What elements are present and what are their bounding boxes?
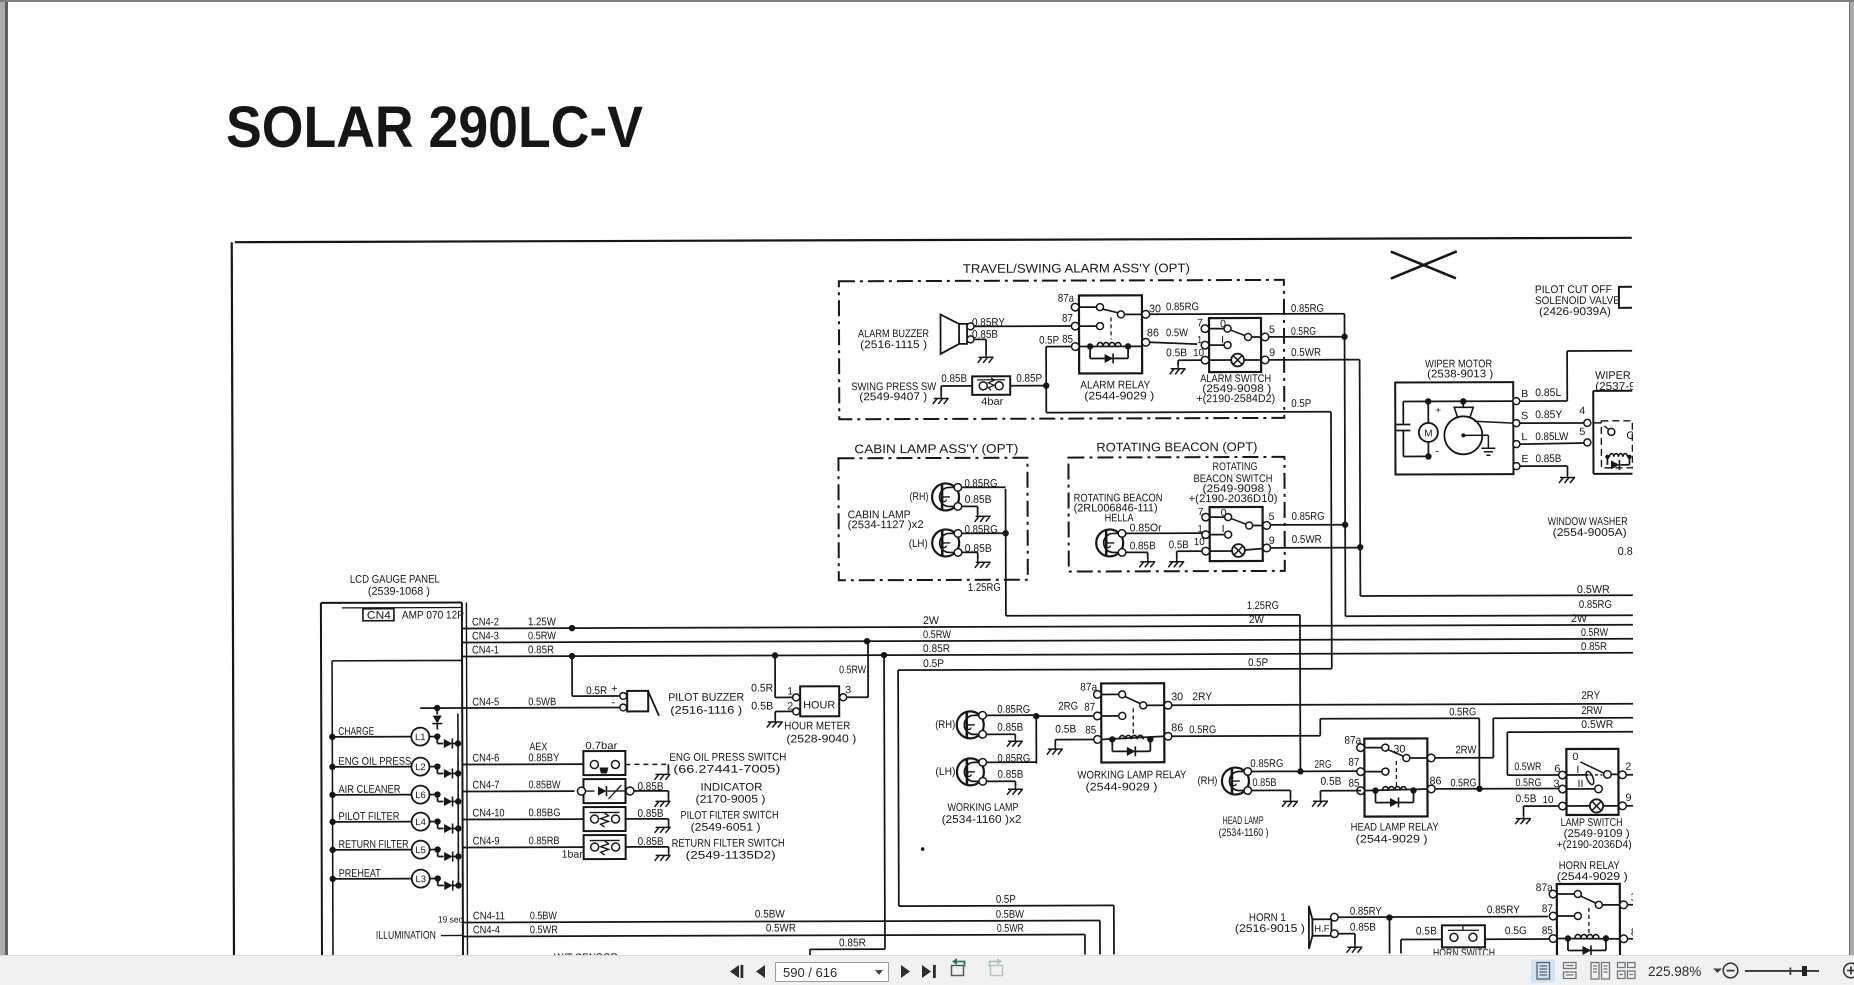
svg-text:ENG OIL PRESS: ENG OIL PRESS [338, 756, 411, 768]
working lamp relay pin labels [1080, 681, 1183, 736]
svg-text:2RG: 2RG [1314, 759, 1331, 771]
horn switch [1442, 925, 1485, 947]
svg-text:85: 85 [1085, 724, 1096, 736]
wire CN4-4 0.5WR [463, 922, 1085, 957]
wiper timer internals [1593, 421, 1635, 470]
svg-text:(LH): (LH) [909, 538, 928, 550]
svg-text:30: 30 [1631, 892, 1641, 904]
rotating beacon switch pin labels [1194, 506, 1275, 548]
svg-text:AMP 070 12P: AMP 070 12P [402, 609, 464, 621]
wire 0.5WR alarm switch 9 [1269, 346, 1633, 597]
svg-text:ROTATING: ROTATING [1212, 461, 1257, 473]
first page button [730, 965, 743, 978]
svg-text:ROTATING BEACON (OPT): ROTATING BEACON (OPT) [1096, 440, 1257, 455]
svg-text:0.5P: 0.5P [1039, 335, 1059, 347]
svg-text:9: 9 [1625, 792, 1631, 804]
rotating beacon switch [1202, 507, 1271, 561]
svg-text:0.85RG: 0.85RG [1579, 599, 1612, 611]
svg-text:0.85RY: 0.85RY [972, 317, 1006, 329]
svg-text:0.5WB: 0.5WB [528, 696, 556, 708]
svg-text:(2549-6051 ): (2549-6051 ) [691, 822, 761, 834]
svg-text:0.85LW: 0.85LW [1535, 431, 1569, 443]
svg-text:9: 9 [1269, 535, 1275, 547]
svg-text:0.85RG: 0.85RG [1166, 301, 1199, 313]
svg-text:CN4-4: CN4-4 [473, 924, 500, 936]
svg-text:ILLUMINATION: ILLUMINATION [376, 930, 436, 942]
svg-text:CN4-10: CN4-10 [473, 807, 505, 819]
working lamp LH [935, 758, 986, 785]
svg-text:(2538-9013 ): (2538-9013 ) [1427, 368, 1493, 380]
svg-text:0.85RG: 0.85RG [1291, 303, 1324, 315]
svg-text:2RW: 2RW [1455, 744, 1477, 756]
TRAVEL/SWING ALARM ASSY title [963, 261, 1190, 276]
wire 0.85B working RH [986, 722, 1023, 747]
svg-text:L1: L1 [415, 732, 426, 743]
head lamp relay pin labels [1344, 734, 1441, 789]
panel inner partition [332, 660, 463, 956]
svg-text:9: 9 [1269, 347, 1275, 359]
wire 0.85B horn ground [1338, 922, 1376, 953]
svg-text:0.5B: 0.5B [1416, 925, 1437, 937]
svg-text:7: 7 [1197, 317, 1203, 329]
svg-text:0.5B: 0.5B [1166, 347, 1187, 359]
svg-text:0.85B: 0.85B [941, 373, 967, 385]
svg-text:RETURN FILTER: RETURN FILTER [339, 839, 409, 851]
WORKING LAMP RELAY label [1077, 769, 1187, 793]
svg-text:E: E [1521, 453, 1528, 465]
svg-text:2RY: 2RY [1581, 690, 1601, 702]
wire 0.5RG head relay 86 [1435, 777, 1559, 789]
svg-text:0.5B: 0.5B [1515, 793, 1536, 805]
svg-text:PREHEAT: PREHEAT [339, 868, 381, 880]
ALARM RELAY label [1080, 379, 1154, 402]
indicator lamp L6 (AIR CLEANER) [329, 783, 461, 806]
wire CN4-6 0.85BY [462, 741, 583, 764]
svg-text:0.5G: 0.5G [1505, 925, 1527, 937]
svg-text:CN4-9: CN4-9 [473, 835, 500, 847]
svg-text:0.85BW: 0.85BW [528, 779, 561, 791]
svg-text:1bar: 1bar [562, 849, 584, 861]
svg-text:0.5RG: 0.5RG [1291, 326, 1316, 338]
wire 0.85P swing press [1010, 373, 1046, 386]
svg-text:19 sec: 19 sec [438, 914, 463, 924]
svg-text:CN4-5: CN4-5 [472, 696, 499, 708]
svg-text:(RH): (RH) [1197, 775, 1217, 787]
svg-text:0.5P: 0.5P [1248, 657, 1268, 669]
wire 2RY [1171, 690, 1633, 705]
svg-text:0.5RG: 0.5RG [1189, 724, 1216, 736]
svg-text:86: 86 [1429, 775, 1441, 787]
svg-text:I: I [1222, 523, 1225, 535]
HORN RELAY label [1557, 860, 1628, 883]
svg-text:+: + [611, 683, 617, 695]
working lamp RH [935, 711, 986, 738]
svg-text:5: 5 [1269, 324, 1275, 336]
indicator lamp L4 (PILOT FILTER) [329, 810, 461, 833]
svg-text:0.5P: 0.5P [923, 658, 944, 670]
wire 0.5RW hour meter pin3 [839, 641, 868, 697]
HEAD LAMP label [1219, 815, 1269, 839]
svg-text:0.85BY: 0.85BY [528, 752, 560, 764]
svg-text:(RH): (RH) [910, 491, 929, 503]
wiper motor [1395, 382, 1513, 474]
svg-text:H.F: H.F [1314, 924, 1329, 935]
wire 0.5G horn [1485, 925, 1551, 939]
svg-text:II: II [1577, 778, 1583, 790]
svg-text:HEAD LAMP: HEAD LAMP [1223, 815, 1264, 827]
svg-text:+(2190-2584D2): +(2190-2584D2) [1196, 393, 1275, 405]
svg-text:0.85RG: 0.85RG [1292, 511, 1325, 523]
svg-text:10: 10 [1194, 536, 1205, 548]
svg-text:3: 3 [845, 684, 851, 696]
svg-text:(66.27441-7005): (66.27441-7005) [673, 763, 780, 775]
ILLUMINATION label [376, 929, 463, 941]
svg-text:0.5RW: 0.5RW [1581, 627, 1609, 639]
wire 0.85B wiper E [1520, 453, 1575, 483]
svg-text:0.5WR: 0.5WR [1291, 347, 1321, 359]
svg-text:AIR CLEANER: AIR CLEANER [338, 784, 400, 796]
LCD gauge panel label [350, 574, 440, 598]
svg-text:CHARGE: CHARGE [338, 726, 374, 738]
wire lamp switch pin9 [1626, 805, 1633, 807]
SWING PRESS SW label [851, 381, 937, 403]
svg-text:L4: L4 [415, 817, 426, 828]
svg-text:4bar: 4bar [981, 396, 1004, 408]
svg-text:0.85B: 0.85B [1252, 777, 1276, 789]
WIPER TIMER label [1595, 370, 1643, 393]
wire 0.85L wiper B [1520, 351, 1633, 401]
svg-text:(2516-1115 ): (2516-1115 ) [860, 339, 927, 351]
svg-text:I: I [1576, 764, 1579, 776]
svg-text:0.5WR: 0.5WR [766, 922, 796, 934]
svg-text:0.85B: 0.85B [997, 769, 1023, 781]
svg-text:86: 86 [1631, 927, 1643, 939]
svg-text:10: 10 [1193, 347, 1204, 359]
alarm relay [1071, 295, 1149, 373]
svg-text:6: 6 [1554, 763, 1560, 775]
svg-text:2RW: 2RW [1581, 705, 1603, 717]
svg-text:0.5WR: 0.5WR [1577, 584, 1610, 596]
svg-text:RETURN FILTER SWITCH: RETURN FILTER SWITCH [672, 837, 785, 849]
svg-text:5: 5 [1269, 511, 1275, 523]
svg-text:CN4: CN4 [367, 610, 391, 622]
svg-text:PILOT FILTER: PILOT FILTER [339, 811, 400, 823]
indicator (2170-9005) [577, 779, 670, 807]
svg-text:0: 0 [1220, 318, 1226, 330]
wire 0.85RG head lamp [1250, 758, 1331, 775]
svg-text:(2549-9407 ): (2549-9407 ) [859, 391, 927, 403]
cabin lamp RH [910, 483, 962, 510]
svg-text:0.5WR: 0.5WR [1514, 761, 1541, 773]
svg-text:87: 87 [1084, 701, 1095, 713]
svg-text:87: 87 [1348, 757, 1359, 769]
indicator lamp L3 (PREHEAT) [330, 867, 462, 890]
svg-text:M: M [1424, 428, 1432, 439]
svg-text:HORN SWITCH: HORN SWITCH [1433, 947, 1495, 955]
svg-text:87a: 87a [1080, 681, 1098, 693]
svg-text:CN4-3: CN4-3 [472, 630, 499, 642]
svg-text:85: 85 [1062, 334, 1073, 346]
svg-text:(2549-1135D2): (2549-1135D2) [686, 849, 776, 861]
svg-text:(2426-9039A): (2426-9039A) [1539, 306, 1611, 318]
svg-text:HOUR: HOUR [803, 699, 835, 711]
ENG OIL PRESS SWITCH label [669, 751, 786, 775]
wire 0.5W relay86-switch1 [1150, 327, 1198, 344]
svg-text:L3: L3 [415, 874, 426, 885]
svg-text:(2539-1068 ): (2539-1068 ) [368, 586, 430, 598]
svg-text:CN4-2: CN4-2 [472, 616, 499, 628]
svg-text:0.85B: 0.85B [965, 543, 992, 555]
wire 85 to 0.5P [1046, 346, 1071, 348]
svg-text:CN4-7: CN4-7 [472, 779, 499, 791]
wire 0.85B head lamp [1252, 777, 1298, 807]
wire 0.85RG cabin LH [962, 524, 1009, 537]
svg-text:CN4-6: CN4-6 [472, 752, 499, 764]
alarm buzzer [940, 314, 974, 354]
wire 0.5RG alarm switch 5 [1269, 326, 1345, 338]
svg-text:SOLAR 290LC-V: SOLAR 290LC-V [226, 95, 643, 160]
svg-text:+: + [1435, 405, 1441, 416]
svg-text:(RH): (RH) [935, 719, 955, 731]
ENG OIL PRESS switch [583, 740, 670, 780]
PILOT CUT OFF SOLENOID VALVE label [1535, 284, 1620, 318]
LCD gauge panel box [321, 602, 468, 956]
svg-text:0.5BW: 0.5BW [755, 908, 786, 920]
wire CN4-7 0.85BW [462, 779, 574, 791]
wire 0.85B beacon ground [1126, 540, 1156, 567]
svg-text:(2544-9029 ): (2544-9029 ) [1356, 833, 1428, 845]
svg-text:0.5B: 0.5B [1055, 724, 1076, 736]
svg-text:CN4-11: CN4-11 [473, 910, 505, 922]
schematic sheet border (top edge) [235, 238, 1632, 242]
svg-text:0.85R: 0.85R [839, 937, 866, 949]
wire 0.85B swing press [933, 373, 973, 404]
svg-text:ENG OIL PRESS SWITCH: ENG OIL PRESS SWITCH [669, 751, 786, 763]
svg-text:C: C [1626, 430, 1634, 442]
indicator lamp L2 (ENG OIL PRESS) [329, 755, 461, 778]
svg-text:(2534-1160 )x2: (2534-1160 )x2 [942, 814, 1022, 826]
wire 0.85RG vertical [1341, 313, 1633, 616]
wire 0.85B cabin RH [962, 494, 992, 522]
WIPER MOTOR label [1425, 358, 1493, 380]
CN4-5 internal wire [420, 705, 462, 712]
svg-text:0.5R: 0.5R [751, 682, 773, 694]
svg-text:0.85R: 0.85R [1581, 641, 1607, 653]
svg-text:PILOT BUZZER: PILOT BUZZER [668, 692, 744, 704]
head lamp relay [1357, 738, 1435, 816]
alarm switch pin labels [1193, 317, 1275, 359]
alarm switch [1201, 318, 1269, 372]
svg-text:0.85BG: 0.85BG [529, 807, 561, 819]
svg-text:1.25W: 1.25W [528, 616, 557, 628]
svg-text:TRAVEL/SWING ALARM ASS'Y (OPT): TRAVEL/SWING ALARM ASS'Y (OPT) [963, 261, 1190, 276]
svg-text:HEAD LAMP RELAY: HEAD LAMP RELAY [1351, 821, 1440, 833]
wire 2RG working junction [1033, 700, 1094, 763]
last page button [922, 965, 936, 978]
svg-text:0.85Y: 0.85Y [1535, 409, 1563, 421]
rotating beacon box [1068, 457, 1284, 572]
svg-text:0.5P: 0.5P [996, 894, 1016, 906]
zoom dropdown caret [1713, 969, 1722, 974]
svg-text:I: I [1221, 334, 1224, 346]
svg-text:L2: L2 [415, 762, 426, 773]
wire 0.85RY buzzer-relay [972, 317, 1072, 329]
wire 0.5RG working relay 86 [1171, 706, 1482, 793]
svg-text:(2528-9040 ): (2528-9040 ) [786, 733, 856, 745]
wire horn relay 30 [1627, 904, 1634, 906]
svg-text:(2534-1160 ): (2534-1160 ) [1219, 827, 1269, 839]
svg-text:(2544-9029 ): (2544-9029 ) [1557, 871, 1628, 883]
svg-text:(LH): (LH) [935, 766, 955, 778]
svg-text:0.5P: 0.5P [1291, 398, 1311, 410]
svg-text:WORKING LAMP: WORKING LAMP [948, 802, 1019, 814]
wire 0.85RY horn [1338, 904, 1548, 954]
svg-text:LCD GAUGE PANEL: LCD GAUGE PANEL [350, 574, 440, 586]
svg-text:0.85B: 0.85B [965, 494, 992, 506]
W/T SENSOR label [554, 952, 618, 964]
HORN 1 label [1235, 912, 1305, 935]
X mark [1391, 251, 1457, 278]
svg-text:PILOT FILTER SWITCH: PILOT FILTER SWITCH [681, 809, 779, 821]
head lamp RH [1197, 767, 1251, 794]
wire 0.5B horn switch [1401, 925, 1442, 953]
wire 0.5B lamp switch ground [1515, 793, 1559, 824]
svg-text:0.5W: 0.5W [1166, 327, 1189, 339]
travel/swing alarm assy box [839, 280, 1284, 419]
svg-text:0.5BW: 0.5BW [530, 910, 558, 922]
INDICATOR label [695, 782, 765, 806]
prev page button [756, 965, 765, 978]
svg-text:0.85RG: 0.85RG [997, 704, 1030, 716]
HEAD LAMP RELAY label [1351, 821, 1440, 845]
svg-text:INDICATOR: INDICATOR [700, 782, 762, 794]
svg-text:0.5RW: 0.5RW [839, 664, 867, 676]
19 sec label [438, 914, 463, 924]
svg-text:0.5WR: 0.5WR [1292, 534, 1322, 546]
wire CN4-5 0.5WB [462, 696, 619, 708]
svg-text:HOUR METER: HOUR METER [784, 720, 850, 732]
svg-text:0.85B: 0.85B [997, 722, 1023, 734]
single page layout icon (active) [1531, 960, 1555, 983]
horn speaker [1309, 906, 1338, 949]
svg-text:86: 86 [1171, 722, 1183, 734]
svg-text:0.5BW: 0.5BW [996, 909, 1025, 921]
svg-text:0.5R: 0.5R [586, 685, 607, 697]
svg-text:1: 1 [1198, 523, 1203, 535]
svg-text:0.5RW: 0.5RW [923, 629, 952, 641]
wire 0.85B buzzer ground [972, 329, 998, 363]
wire 0.85R to W/T sensor [809, 655, 885, 955]
svg-text:0.85RB: 0.85RB [529, 835, 560, 847]
svg-text:0.85R: 0.85R [528, 644, 554, 656]
wire 0.5P net [897, 334, 1333, 955]
wire horn relay 86 [1627, 938, 1634, 940]
svg-text:0: 0 [1221, 507, 1227, 519]
svg-text:1.25RG: 1.25RG [968, 582, 1001, 594]
svg-text:(2516-9015 ): (2516-9015 ) [1235, 923, 1305, 935]
CABIN LAMP ASSY title [854, 442, 1018, 457]
svg-text:(2534-1127 )x2: (2534-1127 )x2 [848, 519, 924, 531]
lamp switch pin labels [1542, 751, 1631, 806]
svg-text:0.8: 0.8 [1618, 546, 1633, 558]
wire CN4-2 / 2W bus [462, 613, 1633, 632]
svg-text:0.5RG: 0.5RG [1449, 706, 1476, 718]
indicator lamp L1 (CHARGE) [329, 725, 461, 748]
lamp diode bus [457, 713, 460, 886]
wire CN4-10 0.85BG [463, 807, 584, 819]
svg-text:0.5RG: 0.5RG [1450, 777, 1476, 789]
svg-text:10: 10 [1542, 794, 1553, 806]
wire 2RG to head relay [1300, 770, 1357, 772]
working lamp relay [1094, 683, 1172, 762]
svg-text:0.85B: 0.85B [1130, 540, 1156, 552]
svg-text:1: 1 [1197, 334, 1202, 346]
wire 0.85B working LH [987, 769, 1024, 795]
wire 0.5WR beacon 9 [1270, 534, 1360, 548]
cut wire label 0.8 [1618, 546, 1633, 558]
svg-text:0.85RG: 0.85RG [965, 524, 998, 536]
diode to CN4-5 line [432, 708, 442, 730]
svg-text:0.85B: 0.85B [1535, 453, 1561, 465]
svg-text:86: 86 [1147, 327, 1159, 339]
wire 0.5B working relay ground [1047, 723, 1094, 754]
wire 0.85RG alarm relay 30 [1149, 301, 1344, 316]
rotating beacon lamp [1096, 529, 1126, 556]
svg-text:(2516-1116 ): (2516-1116 ) [670, 705, 742, 717]
wire 0.85Y wiper S [1520, 405, 1591, 427]
svg-text:L6: L6 [415, 790, 426, 801]
svg-text:0.5RG: 0.5RG [1515, 777, 1541, 789]
cabin lamp assy box [838, 458, 1027, 581]
wire 0.85RG working RH [986, 704, 1036, 716]
wire 2RW [1435, 705, 1634, 758]
svg-text:87: 87 [1542, 903, 1553, 915]
svg-text:0.85RG: 0.85RG [997, 753, 1030, 765]
swing press switch [972, 376, 1010, 408]
svg-text:+(2190-2036D4): +(2190-2036D4) [1557, 839, 1632, 851]
pilot buzzer [611, 691, 659, 716]
PILOT BUZZER label [668, 692, 744, 717]
svg-text:0.85RG: 0.85RG [1250, 758, 1283, 770]
PILOT FILTER switch [584, 807, 671, 833]
svg-text:0.5RW: 0.5RW [528, 630, 557, 642]
horn relay [1549, 884, 1627, 960]
LAMP SWITCH label [1557, 817, 1632, 851]
pilot cut off solenoid connector [1619, 287, 1632, 308]
svg-text:0.85R: 0.85R [923, 643, 950, 655]
cabin lamp LH [909, 529, 962, 556]
wire 0.85RG working LH [986, 753, 1036, 765]
WINDOW WASHER label [1548, 516, 1628, 539]
svg-text:0.5WR: 0.5WR [530, 924, 558, 936]
svg-text:87a: 87a [1344, 735, 1362, 747]
svg-text:30: 30 [1171, 691, 1183, 703]
facing continuous layout icon [1618, 963, 1636, 979]
zoom out button [1723, 963, 1738, 978]
PILOT FILTER SWITCH label [681, 809, 779, 833]
svg-text:L: L [1521, 431, 1527, 443]
svg-text:0: 0 [1572, 751, 1578, 763]
wiper timer box [1593, 391, 1632, 474]
svg-text:0.85P: 0.85P [1016, 373, 1042, 385]
svg-text:0.85RG: 0.85RG [964, 478, 997, 490]
wire 0.85Or beacon [1126, 522, 1202, 534]
connector CN4 label [363, 608, 464, 621]
svg-text:30: 30 [1393, 744, 1405, 756]
horn relay pin labels [1536, 882, 1643, 939]
facing layout icon [1591, 963, 1610, 980]
svg-text:(2544-9029 ): (2544-9029 ) [1084, 390, 1154, 402]
